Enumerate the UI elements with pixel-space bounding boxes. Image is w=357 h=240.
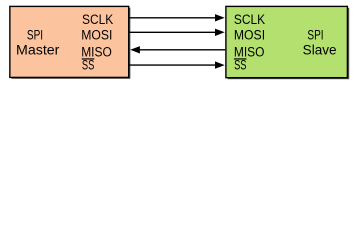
svg-text:MOSI: MOSI (234, 28, 265, 43)
svg-text:Slave: Slave (303, 42, 337, 57)
arrowhead SCLK at slave (215, 14, 225, 21)
SPI Slave block U2 (226, 6, 348, 77)
svg-text:MOSI: MOSI (81, 28, 112, 43)
svg-text:SCLK: SCLK (82, 12, 113, 27)
wire MOSI master to slave (129, 31, 215, 33)
svg-text:Master: Master (16, 42, 60, 57)
svg-text:SS: SS (234, 58, 246, 73)
wire SS master to slave (129, 64, 215, 66)
arrowhead MOSI at slave (215, 29, 225, 36)
slave SS overline (234, 58, 247, 60)
master SS overline (82, 58, 95, 60)
svg-text:SCLK: SCLK (234, 12, 265, 27)
svg-text:SPI: SPI (27, 28, 43, 43)
svg-text:SPI: SPI (307, 28, 323, 43)
arrowhead MISO at master (130, 46, 140, 53)
SPI Slave block shadow (228, 8, 350, 79)
SPI Master block U1 (10, 6, 129, 77)
SPI Master block shadow (12, 8, 131, 79)
svg-text:SS: SS (82, 58, 94, 73)
wire MISO slave to master (139, 49, 225, 51)
wire SCLK master to slave (129, 17, 215, 19)
arrowhead SS at slave (215, 61, 225, 68)
